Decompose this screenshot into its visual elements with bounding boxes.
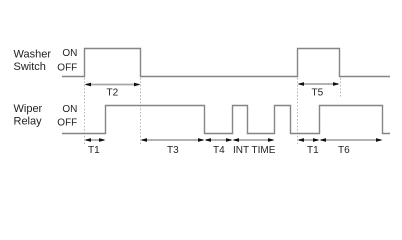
arrow T1 first [85, 138, 106, 142]
arrow T4 [205, 138, 233, 142]
svg-text:T1: T1 [307, 145, 319, 156]
svg-text:OFF: OFF [57, 118, 77, 129]
svg-text:T2: T2 [107, 88, 119, 99]
svg-text:OFF: OFF [57, 62, 77, 73]
svg-text:Switch: Switch [14, 61, 46, 73]
arrow T3 [141, 138, 205, 142]
arrow T1 second [298, 138, 320, 142]
arrow T5 [298, 82, 340, 86]
svg-text:INT TIME: INT TIME [233, 145, 276, 156]
svg-text:T4: T4 [213, 145, 225, 156]
node dashed guide x=84 [84, 78, 86, 144]
wire washer switch waveform [62, 49, 390, 77]
arrow T6 [320, 138, 383, 142]
node dashed guide x=297 [297, 78, 299, 144]
svg-text:Washer: Washer [14, 49, 52, 61]
svg-text:ON: ON [62, 48, 77, 59]
node dashed guide x=140 [140, 78, 142, 144]
svg-text:Wiper: Wiper [14, 103, 43, 115]
svg-text:T5: T5 [312, 88, 324, 99]
svg-text:T6: T6 [338, 145, 350, 156]
svg-text:ON: ON [62, 104, 77, 115]
wire wiper relay waveform [62, 106, 390, 134]
svg-text:Relay: Relay [14, 115, 43, 127]
svg-text:T3: T3 [167, 145, 179, 156]
arrow INT TIME [233, 138, 275, 142]
arrow T2 [85, 83, 141, 87]
svg-text:T1: T1 [88, 145, 100, 156]
node dashed guide x=340 [340, 78, 342, 97]
